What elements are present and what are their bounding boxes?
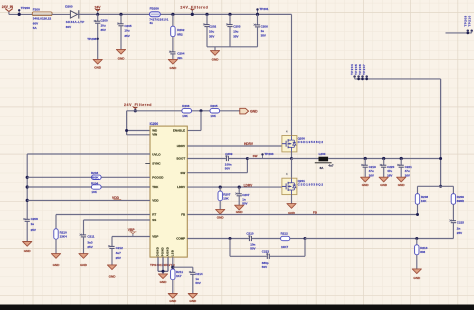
svg-text:806: 806: [420, 250, 425, 254]
capacitor C211: [80, 220, 150, 254]
svg-text:10K: 10K: [91, 190, 97, 194]
capacitor C209 boot: [187, 152, 247, 171]
svg-text:50V: 50V: [262, 265, 267, 269]
capacitor C220: [380, 157, 395, 178]
svg-text:GND: GND: [250, 110, 258, 114]
svg-text:24V_Filtered: 24V_Filtered: [180, 5, 208, 9]
svg-text:10u: 10u: [101, 23, 106, 27]
ground: [361, 177, 370, 187]
svg-text:TRK: TRK: [152, 185, 159, 189]
svg-text:GND: GND: [189, 299, 197, 303]
resistor R204: [26, 181, 150, 194]
port 24V_IN: [2, 5, 14, 14]
svg-text:10K: 10K: [421, 199, 427, 203]
capacitor C204: [169, 51, 185, 60]
junction: [125, 129, 128, 132]
svg-text:C205: C205: [124, 24, 132, 28]
ground: [23, 242, 32, 253]
svg-text:1u: 1u: [31, 222, 35, 226]
ground: [188, 294, 197, 304]
svg-text:10K7: 10K7: [281, 245, 289, 249]
svg-text:GND: GND: [217, 216, 225, 220]
svg-text:GND: GND: [413, 276, 421, 280]
wire COMP to divider: [305, 238, 453, 240]
capacitor C215: [450, 220, 465, 239]
svg-text:TP207: TP207: [362, 64, 366, 75]
svg-text:GND: GND: [94, 66, 102, 70]
power port 24V_Filtered mid: [124, 103, 152, 112]
svg-text:AGND: AGND: [166, 247, 170, 256]
test point TP207: [362, 64, 368, 80]
svg-text:C209: C209: [225, 152, 233, 156]
svg-text:VDD: VDD: [152, 199, 159, 203]
wire ENABLE: [187, 111, 201, 131]
svg-text:COMP: COMP: [176, 237, 185, 241]
svg-text:TP208: TP208: [87, 37, 96, 41]
wire SW pin: [187, 159, 247, 173]
svg-text:GND: GND: [236, 210, 244, 214]
svg-text:GND: GND: [53, 263, 61, 267]
resistor R212: [281, 232, 305, 250]
port GND: [240, 108, 258, 114]
fuse F200: [32, 8, 52, 30]
ground: [216, 209, 225, 219]
svg-text:PGND: PGND: [161, 247, 165, 256]
svg-text:GND: GND: [24, 249, 32, 253]
resistor R205: [210, 104, 220, 118]
junction: [200, 109, 203, 112]
inductor L200: [315, 152, 334, 170]
test point TP209: [463, 15, 469, 34]
svg-text:C202: C202: [209, 24, 217, 28]
ground: [287, 204, 296, 216]
svg-text:C212: C212: [116, 246, 124, 250]
net label HDRV: [187, 142, 282, 146]
svg-text:TP203: TP203: [264, 152, 273, 156]
svg-text:25V: 25V: [457, 231, 462, 235]
svg-text:60V: 60V: [66, 25, 71, 29]
svg-text:LSB: LSB: [170, 250, 174, 256]
svg-text:SS: SS: [152, 218, 156, 222]
svg-text:D200: D200: [65, 4, 73, 8]
svg-text:C214: C214: [195, 272, 203, 276]
test point TP208: [87, 37, 99, 41]
svg-text:10u: 10u: [209, 29, 214, 33]
svg-text:GND: GND: [160, 280, 168, 284]
svg-text:R212: R212: [281, 232, 289, 236]
svg-text:F200: F200: [33, 8, 40, 12]
svg-text:HDRV: HDRV: [244, 142, 254, 146]
test point TP204: [350, 64, 356, 79]
svg-text:GND: GND: [169, 66, 177, 70]
ground: [210, 47, 219, 62]
junction: [229, 237, 232, 240]
capacitor C202: [203, 13, 216, 47]
svg-text:GND: GND: [398, 183, 406, 187]
svg-text:C203: C203: [233, 24, 241, 28]
svg-text:HDRV: HDRV: [177, 144, 185, 148]
svg-text:UVLO: UVLO: [152, 153, 161, 157]
svg-text:2n: 2n: [457, 226, 461, 230]
wire VDD bus: [27, 154, 150, 219]
wire cap bottoms: [207, 46, 258, 48]
junction: [162, 270, 165, 273]
svg-text:3n3: 3n3: [87, 240, 93, 244]
resistor R208: [415, 186, 428, 214]
svg-text:4u7: 4u7: [116, 251, 122, 255]
svg-text:R203: R203: [91, 171, 99, 175]
svg-text:25V: 25V: [87, 245, 92, 249]
ground: [51, 254, 60, 267]
resistor R207: [218, 186, 231, 210]
wire SW to inductor: [292, 158, 319, 160]
svg-text:10K: 10K: [223, 197, 229, 201]
junction: [439, 185, 442, 188]
test point TP206: [358, 64, 364, 80]
svg-text:VIN: VIN: [152, 133, 157, 137]
svg-text:C213: C213: [262, 250, 270, 254]
wire Q200 source to SW: [291, 152, 293, 159]
svg-text:BOOT: BOOT: [177, 157, 186, 161]
capacitor C219: [361, 157, 376, 178]
wire VIN connect: [127, 111, 150, 135]
svg-text:GND: GND: [169, 299, 177, 303]
net label FB: [187, 211, 417, 215]
resistor R206: [182, 104, 192, 118]
svg-text:R205: R205: [210, 104, 218, 108]
resistor R209: [451, 186, 465, 220]
svg-text:35V: 35V: [209, 34, 214, 38]
wire enable divider: [127, 110, 240, 112]
test point TP203: [261, 152, 273, 158]
capacitor C210: [246, 232, 280, 251]
ground: [107, 265, 116, 279]
svg-text:TP200: TP200: [21, 6, 30, 10]
test point TP200: [18, 6, 31, 16]
resistor R202: [171, 13, 185, 52]
power port VDD: [26, 196, 150, 202]
svg-text:GND: GND: [380, 183, 388, 187]
wire COMP: [187, 238, 249, 240]
wire fuse to diode: [52, 13, 70, 15]
svg-text:C210: C210: [246, 232, 254, 236]
wire VOUT rail: [328, 158, 441, 160]
svg-text:13K4: 13K4: [60, 235, 68, 239]
wire Q200 drain: [286, 14, 291, 135]
svg-text:R206: R206: [182, 104, 190, 108]
ground: [158, 274, 167, 284]
svg-text:698R: 698R: [457, 199, 465, 203]
junction: [246, 157, 249, 160]
capacitor C200: [94, 14, 108, 59]
svg-text:25V: 25V: [116, 256, 121, 260]
power port VBP: [112, 228, 150, 237]
svg-text:C208: C208: [31, 217, 39, 221]
capacitor C205: [117, 13, 132, 50]
svg-text:3402.0126.22: 3402.0126.22: [33, 17, 52, 21]
svg-text:10u: 10u: [124, 29, 129, 33]
window bar: [0, 305, 474, 310]
svg-text:C215: C215: [457, 220, 465, 224]
svg-text:SK34A-LTP: SK34A-LTP: [66, 20, 85, 24]
svg-text:L200: L200: [319, 152, 326, 156]
wire testpoint row: [355, 78, 441, 80]
svg-text:FB200: FB200: [150, 6, 160, 10]
svg-text:PGOOD: PGOOD: [152, 175, 164, 179]
svg-text:CSD19538Q2: CSD19538Q2: [298, 183, 324, 187]
svg-text:60V: 60V: [33, 21, 38, 25]
svg-text:6A: 6A: [150, 21, 153, 25]
ground: [93, 59, 102, 69]
svg-text:SYNC: SYNC: [152, 162, 161, 166]
capacitor C213: [230, 239, 305, 270]
svg-text:4u7: 4u7: [328, 164, 334, 168]
resistor R213: [415, 239, 428, 269]
svg-text:25V: 25V: [31, 228, 36, 232]
capacitor C208: [23, 217, 38, 242]
svg-text:GND: GND: [212, 57, 220, 61]
svg-text:10u: 10u: [233, 29, 238, 33]
svg-text:8R2: 8R2: [177, 32, 183, 36]
ground: [79, 254, 88, 267]
capacitor C207: [235, 186, 249, 206]
svg-text:GND: GND: [118, 56, 126, 60]
junction: [290, 157, 293, 160]
junction: [304, 237, 307, 240]
test point TP201: [256, 7, 269, 16]
power port 24V_Filtered top: [180, 5, 208, 16]
svg-text:DGND: DGND: [156, 247, 160, 256]
svg-text:50V: 50V: [250, 246, 255, 250]
resistor R210: [54, 215, 150, 254]
svg-text:IC200: IC200: [150, 122, 159, 126]
net label SW: [247, 154, 291, 158]
diode D200: [65, 4, 84, 29]
ground: [116, 49, 125, 60]
svg-text:GND: GND: [109, 274, 117, 278]
svg-text:1u: 1u: [261, 29, 265, 33]
svg-text:10K: 10K: [182, 114, 188, 118]
junction: [96, 13, 99, 16]
svg-text:LDRV: LDRV: [244, 183, 253, 187]
svg-text:50V: 50V: [225, 167, 230, 171]
svg-text:CSD19538Q2: CSD19538Q2: [298, 140, 324, 144]
junction: [439, 157, 442, 160]
wire divider top: [418, 185, 454, 187]
resistor R211: [171, 257, 184, 293]
transistor Q200: [282, 136, 324, 152]
label TPS40170RGYR: [150, 263, 175, 267]
wire Q201 drain: [286, 159, 291, 179]
svg-text:C211: C211: [87, 234, 94, 238]
test point TP205: [354, 64, 360, 80]
svg-text:TP201: TP201: [259, 7, 268, 11]
svg-text:10K: 10K: [210, 114, 216, 118]
ground: [168, 59, 177, 70]
svg-text:ENABLE: ENABLE: [173, 129, 185, 133]
svg-text:460K: 460K: [91, 176, 99, 180]
svg-text:35V: 35V: [124, 34, 129, 38]
ground: [412, 269, 421, 280]
wire 24V_IN rail: [9, 13, 32, 15]
ground: [168, 294, 177, 304]
wire to VOUT rail: [440, 79, 442, 186]
wire Q201 source: [291, 195, 293, 204]
svg-text:VBP: VBP: [128, 228, 136, 232]
svg-text:SW: SW: [180, 171, 185, 175]
ground: [397, 177, 406, 187]
svg-text:1K7: 1K7: [176, 274, 182, 278]
svg-text:35V: 35V: [101, 28, 106, 32]
svg-text:50V: 50V: [195, 281, 200, 285]
capacitor C203: [226, 13, 241, 47]
capacitor C214: [173, 267, 203, 293]
junction: [415, 237, 418, 240]
svg-text:22n: 22n: [177, 56, 182, 60]
test point TP210: [467, 15, 473, 32]
junction: [416, 213, 419, 216]
ground: [235, 205, 244, 214]
power port 24V: [94, 6, 101, 15]
svg-text:C200: C200: [101, 19, 109, 23]
svg-text:R204: R204: [91, 181, 99, 185]
svg-text:RT: RT: [152, 213, 156, 217]
ground: [379, 177, 388, 187]
net label LDRV: [187, 183, 282, 187]
svg-text:TP210: TP210: [467, 15, 471, 26]
svg-text:VBP: VBP: [152, 235, 158, 239]
svg-text:24V_IN: 24V_IN: [2, 5, 14, 9]
svg-text:24V_Filtered: 24V_Filtered: [124, 103, 152, 107]
svg-text:GND: GND: [80, 263, 88, 267]
svg-text:35V: 35V: [261, 33, 266, 37]
wire right testpoints: [446, 32, 472, 34]
capacitor C212: [108, 237, 123, 265]
svg-text:SW: SW: [253, 154, 258, 158]
resistor R203: [26, 171, 150, 180]
ferrite bead FB200: [149, 6, 168, 25]
IC IC200 TPS40170: [145, 122, 187, 257]
wire DGND PGND AGND: [158, 257, 168, 274]
svg-text:GND: GND: [362, 183, 370, 187]
wire 24V rail: [77, 13, 291, 15]
capacitor C206: [254, 14, 269, 46]
svg-text:35V: 35V: [233, 34, 238, 38]
svg-text:LDRV: LDRV: [177, 185, 185, 189]
transistor Q201: [282, 178, 324, 194]
capacitor C221: [397, 157, 412, 178]
